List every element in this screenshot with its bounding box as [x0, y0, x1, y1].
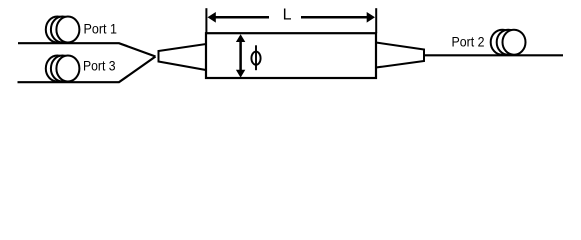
fiber coil Port 3: [46, 56, 80, 82]
wire: Port 1 input fiber: [18, 43, 156, 56]
dimension L right arrowhead: [367, 12, 375, 23]
dimension phi bottom arrowhead: [236, 70, 245, 78]
dimension L left arrowhead: [208, 12, 216, 23]
fiber coil Port 1: [46, 17, 80, 43]
fiber coil Port 2: [491, 30, 526, 55]
wire: Port 3 input fiber: [18, 57, 156, 83]
svg-text:Port 1: Port 1: [84, 21, 118, 37]
dimension L right shaft: [301, 16, 367, 19]
coupler body box: [206, 33, 376, 78]
svg-text:L: L: [283, 6, 292, 23]
dimension phi vertical arrow shaft: [239, 40, 242, 71]
right taper of coupler: [376, 43, 424, 68]
dimension L left shaft: [215, 16, 269, 19]
label phi symbol: [251, 45, 260, 70]
dimension extension line right: [375, 8, 377, 33]
svg-text:Port 2: Port 2: [452, 33, 485, 49]
wire: Port 2 output fiber: [424, 54, 563, 56]
svg-text:Port 3: Port 3: [83, 57, 116, 73]
left taper of coupler: [159, 44, 207, 70]
dimension extension line left: [205, 8, 207, 33]
dimension phi top arrowhead: [236, 34, 245, 42]
